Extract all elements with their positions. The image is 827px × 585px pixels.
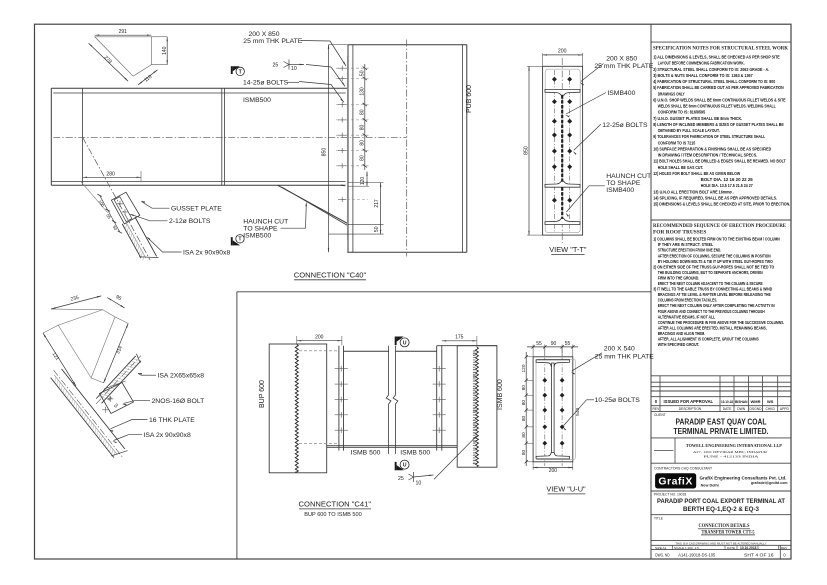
svg-text:7) U.N.O. GUSSET PLATES SHALL: 7) U.N.O. GUSSET PLATES SHALL BE 8mm THI… (653, 116, 742, 121)
svg-text:850: 850 (524, 146, 530, 155)
svg-text:OBTAINED BY FULL SCALE LAYOUT.: OBTAINED BY FULL SCALE LAYOUT. (658, 128, 720, 133)
svg-text:BISHAN: BISHAN (735, 399, 748, 404)
svg-text:2NOS-16Ø BOLT: 2NOS-16Ø BOLT (152, 398, 205, 405)
svg-text:New Delhi: New Delhi (701, 483, 719, 487)
svg-text:SPECIFICATION NOTES FOR STRUCT: SPECIFICATION NOTES FOR STRUCTURAL STEEL… (653, 45, 789, 51)
svg-text:10) SURFACE PREPARATION & FINI: 10) SURFACE PREPARATION & FINISHING SHAL… (653, 146, 771, 151)
svg-text:WITH SPECIFIED GROUT.: WITH SPECIFIED GROUT. (658, 342, 700, 347)
svg-text:PROJECT NO. 19018: PROJECT NO. 19018 (654, 493, 686, 497)
svg-text:BERTH EQ-1,EQ-2 & EQ-3: BERTH EQ-1,EQ-2 & EQ-3 (683, 506, 759, 513)
svg-text:ISMB500: ISMB500 (243, 97, 271, 104)
svg-text:10-25ø BOLTS: 10-25ø BOLTS (595, 397, 641, 404)
svg-text:3) IT WELL TO THE GABLE TRUSS: 3) IT WELL TO THE GABLE TRUSS BY CONNECT… (653, 287, 772, 292)
svg-text:HAUNCH CUT: HAUNCH CUT (243, 219, 288, 226)
svg-text:ISMB 600: ISMB 600 (497, 379, 504, 410)
svg-text:grafixdel@gecltd.com: grafixdel@gecltd.com (751, 481, 787, 485)
svg-text:1) COLUMNS SHALL BE BOLTED FIR: 1) COLUMNS SHALL BE BOLTED FIRM ON TO TH… (653, 237, 780, 242)
svg-text:TO SHAPE: TO SHAPE (243, 226, 278, 233)
svg-text:ISMB400: ISMB400 (606, 187, 634, 194)
svg-text:55: 55 (565, 341, 571, 347)
svg-text:3) BOLTS & NUTS SHALL CONFORM: 3) BOLTS & NUTS SHALL CONFORM TO IS: 136… (653, 73, 753, 78)
svg-text:280: 280 (106, 171, 115, 177)
svg-text:CONFORM TO IS 7215: CONFORM TO IS 7215 (658, 140, 696, 145)
svg-text:HOLE SHALL BE GAS CUT.: HOLE SHALL BE GAS CUT. (658, 165, 704, 170)
svg-text:AFTER, ALL ALIGNMENT IS COMPLE: AFTER, ALL ALIGNMENT IS COMPLETE, GROUT … (658, 337, 759, 342)
svg-text:LAYOUT BEFORE COMMENCING FABRI: LAYOUT BEFORE COMMENCING FABRICATION WOR… (658, 61, 745, 66)
svg-text:DATE: DATE (723, 407, 732, 411)
svg-text:SHT 4 OF 16: SHT 4 OF 16 (744, 552, 774, 557)
svg-text:80: 80 (359, 109, 365, 115)
svg-text:8) LENGTH OF INCLINED MEMBERS: 8) LENGTH OF INCLINED MEMBERS & SIZES OF… (653, 122, 784, 127)
svg-text:DWN: DWN (737, 407, 745, 411)
svg-text:130: 130 (359, 87, 365, 96)
svg-text:GrafiX Engineering Consultants: GrafiX Engineering Consultants Pvt. Ltd. (700, 476, 788, 482)
svg-text:25: 25 (398, 476, 404, 482)
svg-text:200 X 850: 200 X 850 (606, 55, 637, 62)
svg-text:14) SPLICING, IF REQUIRED, SHA: 14) SPLICING, IF REQUIRED, SHALL BE AS P… (653, 195, 777, 200)
svg-text:FIRM INTO THE GROUND.: FIRM INTO THE GROUND. (658, 275, 700, 280)
svg-text:12-25ø BOLTS: 12-25ø BOLTS (602, 122, 648, 129)
svg-text:REV: REV (653, 407, 661, 411)
svg-text:120: 120 (360, 177, 366, 186)
svg-text:2) STRUCTURAL STEEL SHALL CONF: 2) STRUCTURAL STEEL SHALL CONFORM TO IS:… (653, 67, 769, 72)
svg-text:80: 80 (359, 140, 365, 146)
svg-text:11) BOLT HOLES SHALL BE DRILLE: 11) BOLT HOLES SHALL BE DRILLED & EDGES … (653, 159, 786, 164)
svg-text:TO SHAPE: TO SHAPE (606, 180, 641, 187)
svg-text:13) U.N.O ALL ERECTION BOLT AR: 13) U.N.O ALL ERECTION BOLT ARE 16mmø . (653, 189, 734, 194)
svg-text:TITLE: TITLE (654, 516, 664, 520)
svg-text:80: 80 (521, 416, 527, 422)
svg-text:DRAWINGS ONLY: DRAWINGS ONLY (658, 91, 685, 96)
svg-text:4) FABRICATION OF STRUCTURAL S: 4) FABRICATION OF STRUCTURAL STEEL SHALL… (653, 79, 775, 84)
svg-text:200: 200 (558, 48, 567, 54)
svg-text:50: 50 (359, 70, 365, 76)
svg-text:120: 120 (521, 364, 527, 372)
svg-text:10: 10 (416, 481, 422, 487)
svg-text:5) FABRICATION SHALL BE CARRIE: 5) FABRICATION SHALL BE CARRIED OUT AS P… (653, 85, 784, 90)
svg-text:U: U (403, 340, 407, 346)
svg-text:850: 850 (322, 148, 328, 157)
svg-text:25 mm THK PLATE: 25 mm THK PLATE (243, 38, 303, 45)
svg-text:200: 200 (549, 468, 558, 474)
svg-text:ISA 2x 90x90x8: ISA 2x 90x90x8 (183, 250, 230, 257)
svg-text:AFTER ERECTION OF COLUMNS, SEC: AFTER ERECTION OF COLUMNS, SECURE THE CO… (658, 253, 771, 258)
svg-text:12) HOLES FOR BOLT SHALL BE AS: 12) HOLES FOR BOLT SHALL BE AS GIVEN BEL… (653, 171, 741, 176)
svg-text:WELDS SHALL BE 6mm CONTINUOUS: WELDS SHALL BE 6mm CONTINUOUS FILLET WEL… (658, 104, 776, 109)
svg-text:25 mm THK PLATE: 25 mm THK PLATE (595, 353, 655, 360)
svg-text:HOLE DIA. 13.5 17.5 21.5 24 2: HOLE DIA. 13.5 17.5 21.5 24 27 (701, 183, 754, 188)
svg-text:GUSSET PLATE: GUSSET PLATE (171, 206, 222, 213)
svg-text:IF THEY ARE IN STRUCT. STEEL: IF THEY ARE IN STRUCT. STEEL (658, 242, 714, 247)
svg-text:HAUNCH CUT: HAUNCH CUT (606, 173, 651, 180)
svg-text:VIEW "T-T": VIEW "T-T" (549, 245, 587, 254)
svg-text:10.10.18: 10.10.18 (721, 400, 733, 404)
svg-text:BY HOLDING DOWN BOLTS & TIE IT: BY HOLDING DOWN BOLTS & TIE IT UP WITH S… (658, 259, 774, 264)
svg-text:BUP 600: BUP 600 (259, 380, 266, 408)
svg-text:ISMB 500: ISMB 500 (351, 450, 381, 457)
svg-text:2-12ø BOLTS: 2-12ø BOLTS (169, 218, 211, 225)
svg-text:217: 217 (374, 199, 380, 208)
svg-text:THE BUILDING COLUMNS, BUT TO S: THE BUILDING COLUMNS, BUT TO SEPARATE AN… (658, 270, 763, 275)
svg-text:80: 80 (521, 385, 527, 391)
svg-text:CONNECTION DETAILS: CONNECTION DETAILS (699, 523, 750, 529)
svg-text:6) U.N.O. SHOP WELDS SHALL BE: 6) U.N.O. SHOP WELDS SHALL BE 6mm CONTIN… (653, 97, 786, 102)
svg-text:RECOMMENDED SEQUENCE OF ERECTI: RECOMMENDED SEQUENCE OF ERECTION PROCEDU… (653, 223, 786, 229)
svg-text:CONTRACTORS CHQ CONSULTANT: CONTRACTORS CHQ CONSULTANT (654, 467, 713, 471)
svg-text:WS: WS (767, 399, 774, 404)
svg-text:STRUCTURE ERECTION FROM ONE EN: STRUCTURE ERECTION FROM ONE END. (658, 248, 722, 253)
svg-text:ERECT THE NEXT COLUMN ONLY AFT: ERECT THE NEXT COLUMN ONLY AFTER COMPLET… (658, 303, 775, 308)
svg-text:CHKD: CHKD (766, 407, 776, 411)
svg-text:BRACINGS AT TIE LEVEL & RAFTER: BRACINGS AT TIE LEVEL & RAFTER LEVEL BEF… (658, 292, 771, 297)
svg-text:80: 80 (359, 155, 365, 161)
svg-text:DSGND: DSGND (750, 407, 763, 411)
svg-text:CONTINUE THE PROCEDURE IN FIVE: CONTINUE THE PROCEDURE IN FIVE ABOVE FOR… (658, 320, 785, 325)
svg-text:TOWELL ENGINEERING INTERNATION: TOWELL ENGINEERING INTERNATIONAL LLP (686, 443, 782, 448)
svg-text:ISA 2x 90x90x8: ISA 2x 90x90x8 (144, 432, 191, 439)
svg-text:80: 80 (521, 432, 527, 438)
svg-text:ERECT THE NEXT COLUMN ADJACENT: ERECT THE NEXT COLUMN ADJACENT TO THE CO… (658, 281, 763, 286)
svg-text:PUNE - 412133 INDIA: PUNE - 412133 INDIA (704, 455, 760, 459)
svg-text:U: U (403, 463, 407, 469)
svg-text:ISMB400: ISMB400 (607, 90, 635, 97)
svg-text:25: 25 (273, 63, 279, 69)
svg-text:CONNECTION "C40": CONNECTION "C40" (294, 271, 367, 280)
svg-text:FOUR ABOVE AND CONNECT TO THE: FOUR ABOVE AND CONNECT TO THE PREVIOUS C… (658, 309, 765, 314)
svg-text:WMR: WMR (751, 399, 761, 404)
svg-text:80: 80 (521, 400, 527, 406)
svg-text:80: 80 (359, 125, 365, 131)
svg-text:A141-19018-DS-105: A141-19018-DS-105 (678, 552, 716, 557)
svg-text:TERMINAL PRIVATE LIMITED.: TERMINAL PRIVATE LIMITED. (674, 427, 769, 436)
svg-text:GrafiX: GrafiX (658, 475, 693, 487)
svg-text:ISMB500: ISMB500 (243, 233, 271, 240)
svg-text:90: 90 (551, 341, 557, 347)
svg-text:TRANSFER TOWER CTT-5: TRANSFER TOWER CTT-5 (702, 529, 755, 535)
svg-text:2) ON EITHER SIDE OF THE TRUSS: 2) ON EITHER SIDE OF THE TRUSS.GUY-ROPES… (653, 264, 775, 269)
svg-text:PUB 600: PUB 600 (466, 85, 473, 113)
svg-text:ISMB 500: ISMB 500 (400, 450, 430, 457)
svg-text:APPD: APPD (780, 407, 790, 411)
svg-text:IN DRAWING / ITEM DESCRIPTION: IN DRAWING / ITEM DESCRIPTION / TECHNICA… (658, 153, 758, 158)
svg-text:291: 291 (119, 29, 128, 35)
svg-text:16 THK PLATE: 16 THK PLATE (149, 417, 195, 424)
svg-text:DWG. NO: DWG. NO (655, 552, 670, 557)
svg-text:COLUMNS FROM ERECTION TACKLES.: COLUMNS FROM ERECTION TACKLES. (658, 298, 718, 303)
svg-text:200: 200 (315, 334, 324, 340)
svg-text:PARADIP PORT COAL EXPORT TERMI: PARADIP PORT COAL EXPORT TERMINAL AT (657, 498, 786, 505)
svg-text:140: 140 (162, 46, 168, 55)
svg-text:80: 80 (521, 450, 527, 456)
svg-text:CONNECTION "C41": CONNECTION "C41" (299, 500, 372, 509)
svg-text:14-25ø BOLTS: 14-25ø BOLTS (243, 80, 289, 87)
svg-text:THIS IS A CAD DRAWING AND MUST: THIS IS A CAD DRAWING AND MUST NOT BE AL… (675, 541, 766, 545)
svg-text:PARADIP EAST QUAY COAL: PARADIP EAST QUAY COAL (676, 418, 767, 427)
svg-text:BOLT DIA. 12 16 20 22: BOLT DIA. 12 16 20 22 25 (701, 177, 754, 182)
svg-text:9) TOLERANCES FOR FABRICATION: 9) TOLERANCES FOR FABRICATION OF STEEL S… (653, 134, 765, 139)
svg-text:VIEW "U-U": VIEW "U-U" (546, 485, 586, 494)
svg-text:175: 175 (455, 334, 464, 340)
svg-text:BUP 600 TO ISMB 500: BUP 600 TO ISMB 500 (304, 512, 362, 518)
svg-text:FOR ROOF TRUSSES: FOR ROOF TRUSSES (653, 229, 706, 235)
svg-text:AFTER ALL COLUMNS ARE ERECTED,: AFTER ALL COLUMNS ARE ERECTED, INSTALL R… (658, 325, 767, 330)
svg-text:10: 10 (291, 66, 297, 72)
svg-text:55: 55 (536, 341, 542, 347)
svg-text:CLIENT: CLIENT (654, 413, 666, 417)
svg-text:ISA 2X65x65x8: ISA 2X65x65x8 (158, 373, 205, 380)
svg-text:BRACINGS AND ALIGN THEM.: BRACINGS AND ALIGN THEM. (658, 331, 706, 336)
svg-text:15) DIMENSIONS & LEVELS SHALL: 15) DIMENSIONS & LEVELS SHALL BE CHECKED… (653, 202, 790, 207)
svg-text:1) ALL DIMENSIONS & LEVELS, SH: 1) ALL DIMENSIONS & LEVELS, SHALL BE CHE… (653, 55, 780, 60)
svg-text:200 X 540: 200 X 540 (604, 346, 635, 353)
svg-text:DESCRIPTION: DESCRIPTION (679, 407, 702, 411)
svg-text:CONFORM TO IS: 816/9595: CONFORM TO IS: 816/9595 (658, 110, 706, 115)
svg-text:ALTERNATIVE BEAMS, IF NOT ALL: ALTERNATIVE BEAMS, IF NOT ALL (658, 314, 716, 319)
svg-text:ISSUED FOR APPROVAL: ISSUED FOR APPROVAL (664, 399, 714, 404)
svg-text:50: 50 (374, 226, 380, 232)
svg-text:200 X 850: 200 X 850 (249, 31, 280, 38)
